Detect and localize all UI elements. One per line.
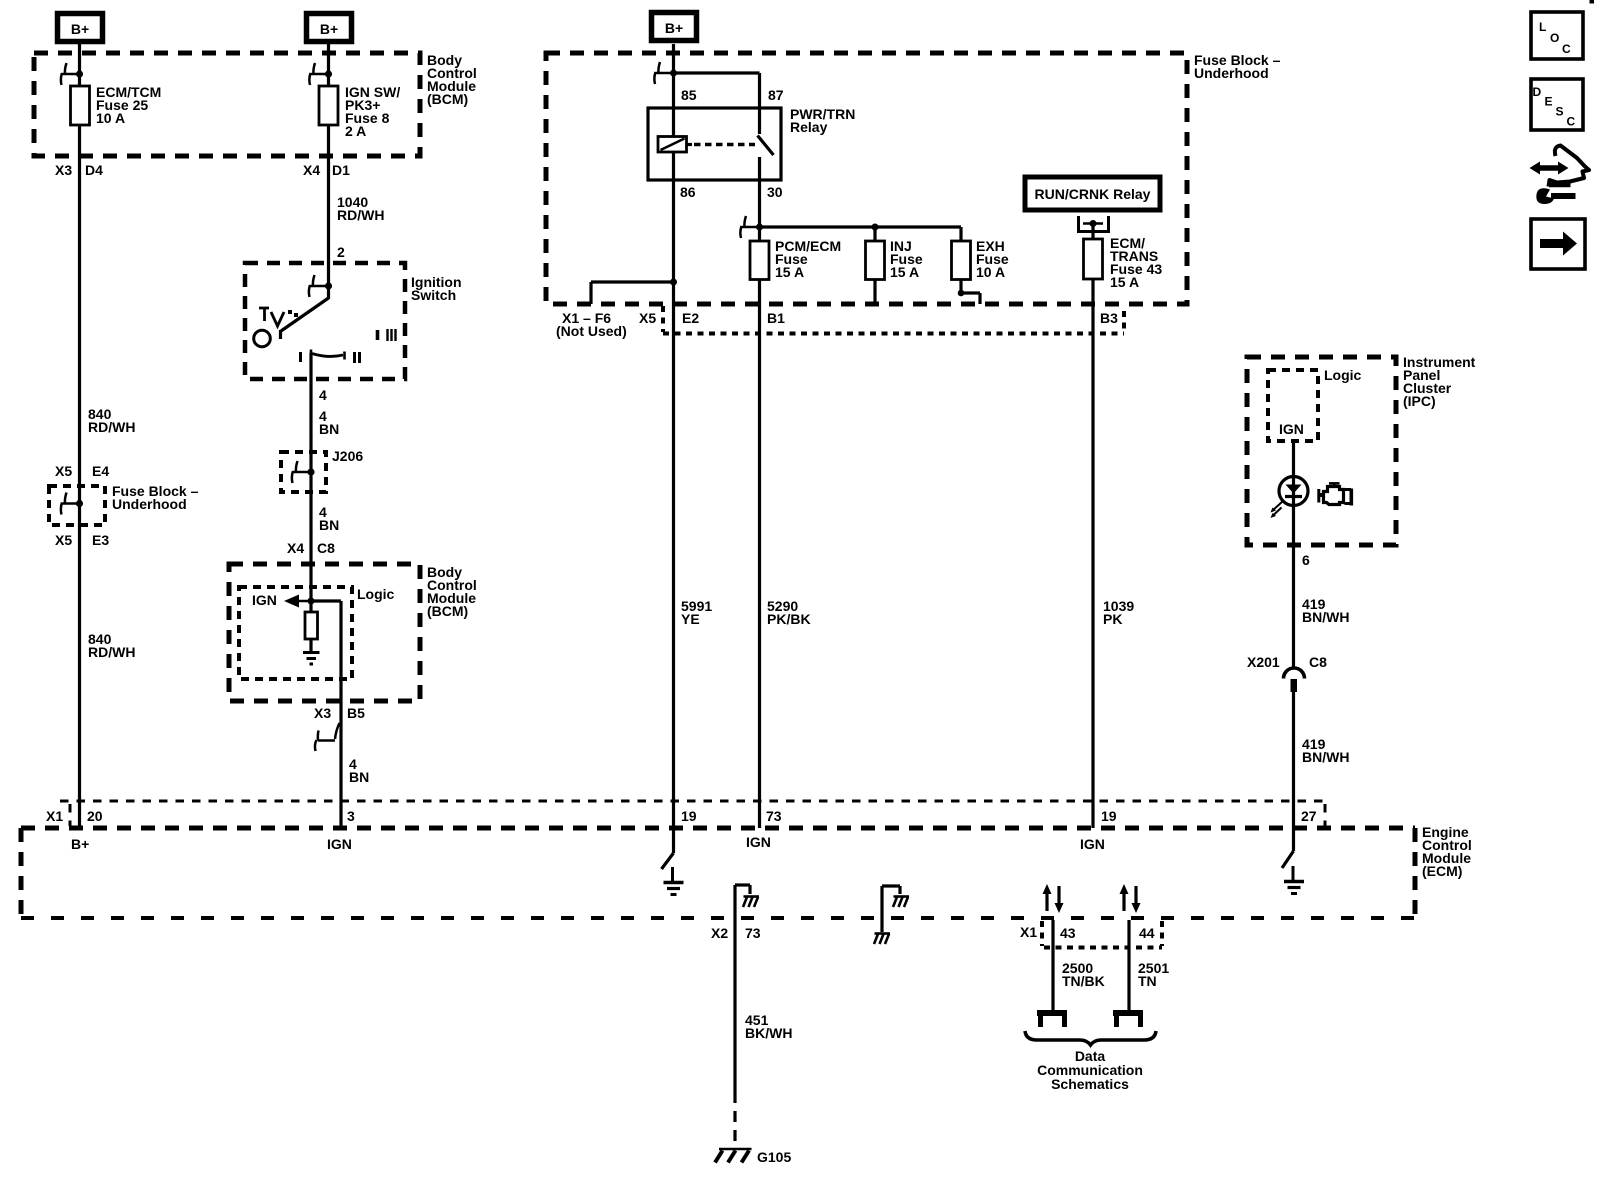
fuse INJ 15A xyxy=(866,238,923,280)
Instrument Panel Cluster dashed box xyxy=(1247,357,1396,545)
wire label 4 BN (lower) xyxy=(319,504,339,533)
svg-text:E4: E4 xyxy=(92,463,109,479)
connector X5 pin E3 labels xyxy=(55,532,109,548)
svg-text:86: 86 xyxy=(680,184,696,200)
svg-text:IGN: IGN xyxy=(1279,421,1304,437)
svg-text:Switch: Switch xyxy=(411,287,456,303)
svg-text:B+: B+ xyxy=(71,21,89,37)
svg-text:C: C xyxy=(1562,42,1571,56)
wire label 419 BN/WH (lower) xyxy=(1302,736,1349,765)
indicator LED circle xyxy=(1279,477,1308,506)
svg-text:73: 73 xyxy=(766,808,782,824)
svg-text:(IPC): (IPC) xyxy=(1403,393,1436,409)
fuse EXH 10A xyxy=(952,238,1009,280)
svg-text:10 A: 10 A xyxy=(976,264,1005,280)
wire RUN/CRNK relay to ECM/TRANS fuse and down to ECM pin 19 xyxy=(1091,224,1094,829)
svg-text:RD/WH: RD/WH xyxy=(88,644,135,660)
svg-text:IGN: IGN xyxy=(746,834,771,850)
LED diode symbol xyxy=(1285,477,1302,506)
svg-text:(BCM): (BCM) xyxy=(427,91,468,107)
wire label 1039 PK xyxy=(1103,598,1134,627)
wire ECM pin 43 serial data xyxy=(1051,920,1054,1010)
svg-text:X3: X3 xyxy=(55,162,72,178)
connector tap on B+ wire 3 xyxy=(654,62,671,84)
wire INJ fuse to block edge xyxy=(873,280,876,305)
wire from B+ terminal 1 down to ECM pin 20 xyxy=(78,44,81,828)
svg-text:BN/WH: BN/WH xyxy=(1302,609,1349,625)
svg-text:B+: B+ xyxy=(320,21,338,37)
svg-text:YE: YE xyxy=(681,611,700,627)
ECM internal chassis ground wire 2 xyxy=(882,886,900,932)
svg-text:4: 4 xyxy=(319,387,327,403)
svg-text:IGN: IGN xyxy=(327,836,352,852)
next page arrow icon box xyxy=(1531,219,1585,269)
in-line connector symbol xyxy=(1284,668,1305,692)
svg-text:Underhood: Underhood xyxy=(1194,65,1269,81)
connector X1-F6 not used label xyxy=(556,310,627,339)
svg-text:G105: G105 xyxy=(757,1149,791,1165)
RUN/CRNK Relay callout box xyxy=(1025,177,1160,210)
wire label 4 BN (BCM out) xyxy=(349,756,369,785)
ECM internal ground (left) xyxy=(664,867,684,895)
svg-text:Schematics: Schematics xyxy=(1051,1076,1129,1092)
Fuse Block Underhood pass-through label xyxy=(112,483,199,512)
svg-text:J206: J206 xyxy=(332,448,363,464)
Logic dashed box in BCM xyxy=(239,587,352,679)
small chassis ground symbol 1 xyxy=(743,897,759,908)
svg-text:X5: X5 xyxy=(55,463,72,479)
svg-text:20: 20 xyxy=(87,808,103,824)
svg-text:2 A: 2 A xyxy=(345,123,366,139)
data communication schematics label xyxy=(1037,1048,1143,1092)
svg-text:15 A: 15 A xyxy=(890,264,919,280)
svg-text:44: 44 xyxy=(1139,925,1155,941)
connector X3 pin D4 labels xyxy=(55,162,103,178)
svg-text:Relay: Relay xyxy=(790,119,828,135)
connector X4 pin C8 labels xyxy=(287,540,335,556)
off-page connector pin 43 xyxy=(1037,1010,1067,1027)
connector tap in pass-through xyxy=(61,493,83,515)
junction node bus at INJ fuse xyxy=(872,224,879,231)
svg-text:30: 30 xyxy=(767,184,783,200)
svg-text:2: 2 xyxy=(337,244,345,260)
svg-text:RUN/CRNK Relay: RUN/CRNK Relay xyxy=(1035,186,1151,202)
Fuse Block Underhood pass-through dashed box xyxy=(49,486,105,525)
small chassis ground symbol 3 (below ECM edge) xyxy=(874,934,890,945)
svg-text:6: 6 xyxy=(1302,552,1310,568)
ignition switch output wire terminal I xyxy=(309,353,312,601)
Engine Control Module dashed box xyxy=(21,828,1415,918)
junction node bus at pin 30 xyxy=(756,224,763,231)
svg-text:B3: B3 xyxy=(1100,310,1118,326)
ECM internal switch to ground (pin 19 left) xyxy=(662,828,674,869)
connector X4 pin D1 labels xyxy=(303,162,350,178)
wire tap to relay pin 87 xyxy=(674,73,760,134)
svg-text:C: C xyxy=(1567,115,1576,129)
svg-text:85: 85 xyxy=(681,87,697,103)
IPC label xyxy=(1403,354,1476,409)
connector X2 pin 73 labels xyxy=(711,925,761,941)
Logic dashed box in IPC xyxy=(1268,370,1318,441)
dashed wire segment to G105 xyxy=(733,1092,736,1146)
connector X3 pin B5 labels xyxy=(314,705,365,721)
svg-text:X4: X4 xyxy=(287,540,304,556)
svg-text:X4: X4 xyxy=(303,162,320,178)
svg-text:BK/WH: BK/WH xyxy=(745,1025,792,1041)
junction node at relay terminal xyxy=(1090,220,1097,227)
B+ terminal 1 xyxy=(58,14,103,42)
ground G105 symbol xyxy=(715,1149,752,1163)
Body Control Module (BCM) fuse box dashed outline xyxy=(34,53,420,156)
fuse ECM/TCM Fuse 25 10A xyxy=(71,84,162,126)
svg-text:BN: BN xyxy=(349,769,369,785)
wire label 4 BN xyxy=(319,408,339,437)
ignition switch movable lever xyxy=(281,298,329,339)
wire label 840 RD/WH (upper) xyxy=(88,406,135,435)
wire label 1040 RD/WH xyxy=(337,194,384,223)
svg-text:B1: B1 xyxy=(767,310,785,326)
svg-text:X5: X5 xyxy=(639,310,656,326)
svg-text:B+: B+ xyxy=(665,20,683,36)
svg-text:(Not Used): (Not Used) xyxy=(556,323,627,339)
position I II contact row with arc xyxy=(301,350,360,364)
svg-text:PK/BK: PK/BK xyxy=(767,611,811,627)
fuse IGN SW/PK3+ Fuse 8 2A xyxy=(319,84,400,139)
svg-text:15 A: 15 A xyxy=(1110,274,1139,290)
wire label 5290 PK/BK xyxy=(767,598,811,627)
svg-text:IGN: IGN xyxy=(1080,836,1105,852)
fuse bus wire xyxy=(760,227,962,241)
check engine MIL icon xyxy=(1319,483,1352,505)
B+ terminal 3 xyxy=(652,13,697,41)
svg-text:Underhood: Underhood xyxy=(112,496,187,512)
svg-text:TN/BK: TN/BK xyxy=(1062,973,1105,989)
ECM internal ground (right) xyxy=(1284,866,1304,894)
svg-text:C8: C8 xyxy=(317,540,335,556)
svg-text:O: O xyxy=(1550,31,1559,45)
in-line connector X201 C8 labels xyxy=(1247,654,1327,670)
Fuse Block Underhood dashed outline xyxy=(546,53,1187,304)
wire from B+ terminal 2 down to ignition switch xyxy=(327,44,330,299)
svg-text:X5: X5 xyxy=(55,532,72,548)
fuse PCM/ECM 15A xyxy=(750,238,841,280)
connector tap on wire 1 xyxy=(61,63,83,85)
svg-text:BN/WH: BN/WH xyxy=(1302,749,1349,765)
dotted connector line below fuse block xyxy=(663,306,1124,334)
wire stub X1-F6 not used xyxy=(591,282,674,304)
connector tap on fuse bus xyxy=(740,216,757,238)
svg-text:(ECM): (ECM) xyxy=(1422,863,1462,879)
svg-text:E: E xyxy=(1545,95,1553,109)
ground symbol in BCM logic xyxy=(303,653,320,665)
svg-text:B+: B+ xyxy=(71,836,89,852)
dotted detent marks xyxy=(288,310,298,317)
LED emission arrows xyxy=(1271,501,1284,518)
wire label 2500 TN/BK xyxy=(1062,960,1105,989)
wire EXH fuse jog to block edge xyxy=(961,280,980,305)
svg-text:19: 19 xyxy=(1101,808,1117,824)
svg-text:19: 19 xyxy=(681,808,697,824)
junction node at EXH jog xyxy=(958,290,965,297)
node junction in logic xyxy=(308,598,315,605)
BCM label xyxy=(427,52,477,107)
svg-text:PK: PK xyxy=(1103,611,1122,627)
svg-text:X201: X201 xyxy=(1247,654,1280,670)
svg-text:27: 27 xyxy=(1301,808,1317,824)
svg-text:BN: BN xyxy=(319,517,339,533)
junction node at relay pin 85 tap xyxy=(670,70,677,77)
svg-text:10 A: 10 A xyxy=(96,110,125,126)
svg-text:15 A: 15 A xyxy=(775,264,804,280)
svg-text:C8: C8 xyxy=(1309,654,1327,670)
ECM internal chassis ground wire (X2/73) xyxy=(735,885,750,1092)
svg-text:Logic: Logic xyxy=(357,586,395,602)
Ignition Switch label xyxy=(411,274,462,303)
svg-text:3: 3 xyxy=(347,808,355,824)
connector tap at J206 xyxy=(292,461,315,483)
wire label 5991 YE xyxy=(681,598,712,627)
wire logic junction to BCM output xyxy=(311,601,341,828)
Fuse Block Underhood label xyxy=(1194,52,1281,81)
svg-text:E3: E3 xyxy=(92,532,109,548)
serial data bidirectional arrows pin 43 xyxy=(1043,884,1064,913)
IGN signal label and arrow xyxy=(252,592,311,608)
wire relay pin 30 down to fuses bus xyxy=(758,180,761,828)
small chassis ground symbol 2 xyxy=(893,897,909,908)
svg-text:TN: TN xyxy=(1138,973,1157,989)
junction node at stub xyxy=(670,279,677,286)
svg-text:BN: BN xyxy=(319,421,339,437)
ECM internal switch to ground (pin 27 right) xyxy=(1282,851,1294,868)
wire from B+ terminal 3 down through relay coil to ECM pin 19 xyxy=(672,44,675,828)
serial data bidirectional arrows pin 44 xyxy=(1120,884,1141,913)
wire label 419 BN/WH (upper) xyxy=(1302,596,1349,625)
svg-text:D1: D1 xyxy=(332,162,350,178)
fuse ECM/TRANS Fuse 43 15A xyxy=(1084,235,1163,290)
connector X1 dotted line xyxy=(60,801,1325,826)
wire label 451 BK/WH xyxy=(745,1012,792,1041)
dotted connector box around pins 43/44 xyxy=(1042,921,1162,948)
svg-text:S: S xyxy=(1556,105,1564,119)
ignition switch rotor circle xyxy=(254,330,271,347)
B+ terminal 2 xyxy=(307,14,352,42)
connector X5 pin E4 labels xyxy=(55,463,109,479)
position I III marks (upper) xyxy=(378,329,396,341)
svg-text:X1: X1 xyxy=(1020,924,1037,940)
Ignition Switch dashed box xyxy=(245,263,405,379)
DESC icon box xyxy=(1531,79,1583,130)
relay coil xyxy=(658,137,692,153)
svg-text:Logic: Logic xyxy=(1324,367,1362,383)
LOC icon box xyxy=(1531,12,1583,59)
wire IPC logic to ECM pin 27 xyxy=(1292,441,1295,851)
svg-text:73: 73 xyxy=(745,925,761,941)
connector tap inside ignition switch xyxy=(309,275,332,297)
corner tick xyxy=(1590,0,1595,4)
svg-text:43: 43 xyxy=(1060,925,1076,941)
pull-down resistor in BCM logic xyxy=(305,601,318,652)
connector tap at BCM output xyxy=(315,723,340,751)
relay contact blade xyxy=(758,136,774,181)
connector X5 label row xyxy=(639,310,699,326)
off-page connector pin 44 xyxy=(1113,1010,1143,1027)
svg-text:RD/WH: RD/WH xyxy=(88,419,135,435)
connector tap on wire 2 xyxy=(309,63,332,85)
ECM label xyxy=(1422,824,1472,879)
splice J206 dashed box xyxy=(281,452,326,492)
svg-text:X3: X3 xyxy=(314,705,331,721)
svg-text:B5: B5 xyxy=(347,705,365,721)
wire label 840 RD/WH (lower) xyxy=(88,631,135,660)
svg-text:D4: D4 xyxy=(85,162,103,178)
svg-text:E2: E2 xyxy=(682,310,699,326)
wire label 2501 TN xyxy=(1138,960,1169,989)
PWR/TRN Relay box xyxy=(648,108,781,180)
RUN/CRNK relay terminal bracket xyxy=(1079,216,1109,232)
svg-text:D: D xyxy=(1533,85,1542,99)
svg-text:(BCM): (BCM) xyxy=(427,603,468,619)
wire ECM pin 44 serial data xyxy=(1127,920,1130,1010)
PWR/TRN Relay label xyxy=(790,106,855,135)
relay actuation dashed link xyxy=(694,143,755,147)
jump/tools icon xyxy=(1530,146,1590,205)
Body Control Module lower dashed box xyxy=(229,564,420,701)
svg-text:X1: X1 xyxy=(46,808,63,824)
BCM lower label xyxy=(427,564,477,619)
brace to data communication schematics xyxy=(1025,1031,1156,1045)
svg-text:X2: X2 xyxy=(711,925,728,941)
svg-text:IGN: IGN xyxy=(252,592,277,608)
svg-text:L: L xyxy=(1539,20,1546,34)
svg-text:87: 87 xyxy=(768,87,784,103)
ignition switch position IV marking xyxy=(259,308,284,326)
svg-text:RD/WH: RD/WH xyxy=(337,207,384,223)
